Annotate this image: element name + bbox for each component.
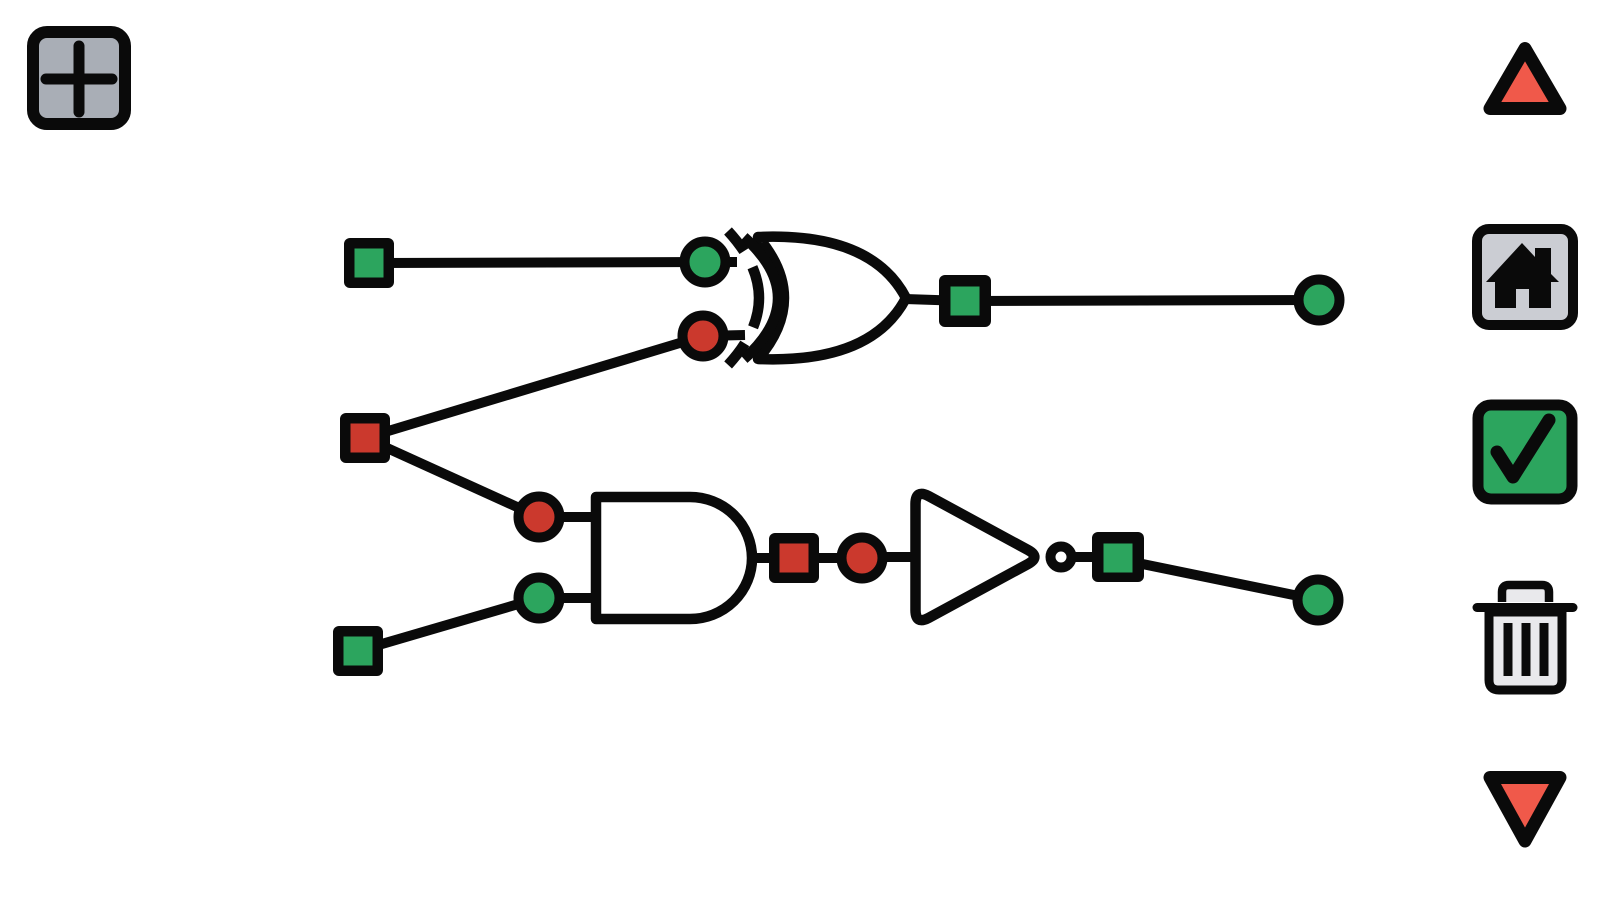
node: AND input A (red circle)	[519, 497, 560, 538]
trash button	[1477, 585, 1573, 690]
wire W10: red square to NOT input node	[794, 553, 862, 563]
up triangle button	[1490, 49, 1560, 109]
XOR gate U1 input stub B	[703, 335, 745, 336]
node: NOT output (green square)	[1092, 532, 1144, 582]
wire W11: NOT input node stub to triangle	[862, 552, 922, 562]
plus button (add component)	[33, 32, 125, 124]
node: XOR input B (red circle)	[683, 316, 724, 357]
node: output lamp 2 (green circle)	[1298, 580, 1339, 621]
wire W6: XOR apex stub to output square	[905, 299, 965, 301]
wire W4: input C square to AND input B	[358, 598, 539, 651]
NOT gate U3 bubble	[1051, 547, 1072, 568]
down triangle button	[1490, 778, 1560, 842]
home button	[1477, 229, 1573, 325]
input switch C (green square)	[333, 626, 383, 676]
NOT gate U3 triangle	[916, 494, 1035, 620]
XOR gate U1 input stub A	[705, 257, 737, 267]
input switch A (green square)	[344, 238, 394, 288]
node: XOR input A (green circle)	[685, 242, 726, 283]
wire W12: NOT bubble to green square	[1061, 552, 1118, 562]
node: NOT input (red circle)	[842, 538, 883, 579]
check (validate) button	[1478, 405, 1572, 499]
wire W1: input A square to XOR input A	[369, 262, 705, 263]
node: output lamp 1 (green circle)	[1299, 280, 1340, 321]
XOR gate U1 inner arc	[744, 237, 778, 359]
wire W3: input B square to AND input A	[365, 438, 539, 517]
input switch B (red square)	[340, 413, 390, 463]
wire W8: AND input B stub	[539, 593, 598, 603]
wire W9: AND output stub to red square	[750, 553, 794, 563]
XOR gate U1 body	[758, 237, 906, 360]
wire W7: AND input A stub	[539, 512, 598, 522]
node: AND input B (green circle)	[519, 578, 560, 619]
AND gate U2 body	[596, 497, 752, 619]
wire W5: XOR output square to output lamp 1	[965, 300, 1319, 301]
node: AND output (red square)	[769, 533, 819, 583]
wire W2: input B square to XOR input B	[365, 336, 703, 438]
node: XOR output (green square)	[939, 275, 991, 327]
wire W13: NOT output square to output lamp 2	[1118, 559, 1318, 600]
XOR gate U1 outer arc (broken at input wires)	[728, 231, 759, 365]
